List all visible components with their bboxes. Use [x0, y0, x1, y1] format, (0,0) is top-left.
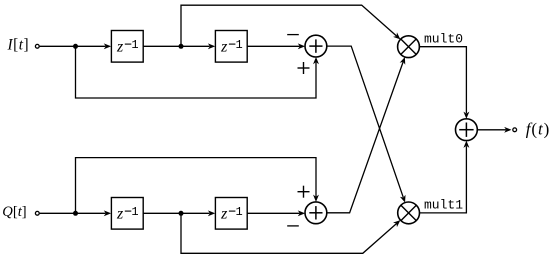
svg-text:z: z [220, 39, 228, 56]
wire D4 to summer S2 minus input [247, 211, 304, 216]
summer S3 final adder [456, 119, 478, 141]
wire mult0 to summer S3 [419, 47, 468, 118]
delay D2 z^-1 [215, 31, 247, 63]
node junction I[t] tap [73, 44, 78, 49]
terminal Q[t] input port [35, 211, 39, 215]
delay D4 z^-1 [215, 198, 247, 230]
svg-text:f(t): f(t) [526, 120, 550, 139]
label plus sign at S1 [298, 62, 310, 74]
delay D1 z^-1 [111, 31, 143, 63]
summer S2 [305, 202, 327, 224]
wire bypass Q[t] to S2 plus input [76, 158, 319, 214]
wire bypass I[t] to S1 plus input [76, 46, 319, 98]
label minus sign at S2 [287, 225, 299, 227]
wire S1 output to mult1 upper input [327, 46, 407, 202]
svg-text:mult1: mult1 [424, 197, 463, 212]
label minus sign at S1 [287, 34, 299, 36]
svg-text:1: 1 [236, 205, 243, 219]
multiplier mult0 [398, 36, 420, 58]
wire I[t-1] tap to mult0 upper input [181, 5, 401, 46]
wire I input to delay D1 [40, 44, 111, 49]
svg-text:1: 1 [131, 205, 138, 219]
wire Q input to delay D3 [40, 211, 111, 216]
svg-text:mult0: mult0 [424, 31, 463, 46]
wire D1 to D2 [143, 44, 214, 49]
node junction I[t-1] tap [179, 44, 184, 49]
svg-text:1: 1 [236, 38, 243, 52]
svg-text:z: z [116, 39, 124, 56]
node junction Q[t] tap [73, 211, 78, 216]
svg-text:1: 1 [131, 38, 138, 52]
delay D3 z^-1 [111, 198, 143, 230]
svg-text:I[t]: I[t] [7, 36, 30, 53]
node junction Q[t-1] tap [179, 211, 184, 216]
wire S2 output to mult0 lower input [327, 57, 407, 213]
terminal f(t) output port [513, 128, 517, 132]
svg-text:z: z [220, 206, 228, 223]
wire Q[t-1] tap to mult1 lower input [181, 213, 401, 253]
wire mult1 to summer S3 [420, 141, 469, 213]
wire D3 to D4 [143, 211, 214, 216]
multiplier mult1 [398, 202, 420, 224]
wire S3 to output terminal [477, 128, 510, 133]
svg-text:z: z [116, 206, 124, 223]
label plus sign at S2 [298, 186, 310, 198]
wire D2 to summer S1 minus input [247, 44, 304, 49]
svg-text:Q[t]: Q[t] [2, 204, 26, 220]
terminal I[t] input port [35, 44, 39, 48]
summer S1 [305, 35, 327, 57]
